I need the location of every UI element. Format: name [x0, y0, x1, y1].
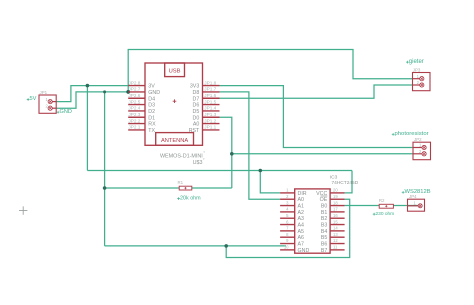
svg-text:A6: A6: [298, 235, 305, 241]
node GND label: [57, 109, 72, 115]
svg-text:GND: GND: [148, 90, 160, 96]
R2 value 230 ohm: [373, 211, 394, 217]
svg-text:JP1.5: JP1.5: [204, 99, 216, 104]
wire GND to JP3 pin 1: [128, 50, 412, 92]
JP3 pin 2: [413, 80, 424, 87]
svg-text:A4: A4: [298, 223, 305, 229]
resistor R1 body: [179, 186, 192, 190]
svg-text:DIR: DIR: [298, 191, 307, 197]
svg-text:TX: TX: [148, 128, 155, 134]
svg-text:WEMOS-D1-MINI: WEMOS-D1-MINI: [160, 154, 203, 160]
svg-text:D5: D5: [193, 109, 200, 115]
svg-text:D1: D1: [148, 115, 155, 121]
svg-text:A1: A1: [298, 204, 305, 210]
svg-text:photoresistor: photoresistor: [395, 131, 429, 137]
svg-text:B0: B0: [321, 204, 328, 210]
svg-text:A0: A0: [193, 122, 200, 128]
svg-text:D7: D7: [193, 96, 200, 102]
JP1 pin 1: [45, 97, 56, 104]
svg-text:JP2.7: JP2.7: [128, 87, 140, 92]
junction GND at module pin: [126, 90, 130, 94]
svg-text:JP1.4: JP1.4: [204, 106, 216, 111]
svg-text:B4: B4: [321, 229, 328, 235]
svg-text:JP2.8: JP2.8: [128, 80, 140, 85]
svg-text:gieter: gieter: [409, 59, 424, 65]
svg-text:JP2: JP2: [414, 137, 422, 142]
wire GND to IC3 OE: [226, 199, 350, 257]
node photoresistor label: [392, 131, 429, 137]
svg-text:A2: A2: [298, 210, 305, 216]
svg-text:13: 13: [333, 232, 338, 237]
svg-text:B6: B6: [321, 242, 328, 248]
svg-text:RX: RX: [148, 122, 156, 128]
svg-text:JP3: JP3: [413, 68, 421, 73]
wire 5V to IC3 DIR: [260, 171, 280, 193]
svg-text:JP1.1: JP1.1: [204, 125, 216, 130]
IC3 left pins 1-10: [280, 188, 309, 254]
junction GND riser: [103, 90, 106, 93]
svg-text:IC3: IC3: [330, 175, 338, 181]
JP4 pin 1: [408, 201, 423, 208]
svg-text:D2: D2: [148, 109, 155, 115]
JP2 pin 2: [413, 149, 426, 156]
junction GND bottom / OE: [224, 244, 228, 248]
svg-text:R2: R2: [379, 198, 385, 203]
svg-text:JP1.6: JP1.6: [204, 93, 216, 98]
svg-text:17: 17: [333, 207, 338, 212]
svg-text:JP2.2: JP2.2: [128, 118, 140, 123]
svg-text:3V3: 3V3: [190, 84, 199, 90]
wire module D8 to IC3 A0: [220, 92, 281, 199]
svg-text:B1: B1: [321, 210, 328, 216]
svg-text:D6: D6: [193, 103, 200, 109]
connector JP2 photoresistor body: [413, 142, 431, 160]
wire JP1.1 to module 3V (5V net): [56, 86, 128, 102]
wire IC3 B0 to R2: [345, 205, 380, 207]
junction D0 / photoresistor: [230, 152, 234, 156]
svg-text:B2: B2: [321, 216, 328, 222]
JP3 pin 1: [413, 74, 424, 81]
module origin cross: [173, 99, 177, 103]
wire GND riser down: [104, 92, 106, 246]
svg-text:RST: RST: [189, 128, 200, 134]
svg-text:JP1: JP1: [40, 90, 48, 95]
svg-text:D8: D8: [193, 90, 200, 96]
wire GND to R1: [105, 187, 180, 189]
svg-text:JP2.5: JP2.5: [128, 99, 140, 104]
svg-text:JP1.7: JP1.7: [204, 87, 216, 92]
svg-text:D4: D4: [148, 96, 155, 102]
JP1 pin 2: [45, 103, 56, 110]
resistor R2 body: [379, 204, 393, 208]
svg-text:D3: D3: [148, 103, 155, 109]
svg-text:20k ohm: 20k ohm: [180, 195, 201, 201]
connector JP4 WS2812B body: [408, 199, 425, 211]
svg-text:WS2812B: WS2812B: [405, 189, 431, 195]
svg-text:A0: A0: [298, 197, 305, 203]
sheet origin cross: [19, 206, 27, 214]
node WS2812B label: [402, 189, 431, 195]
svg-text:JP2.6: JP2.6: [128, 93, 140, 98]
svg-text:JP2.3: JP2.3: [128, 112, 140, 117]
module right pins JP1.1-JP1.8: [189, 80, 220, 134]
svg-text:A7: A7: [298, 242, 305, 248]
svg-text:A5: A5: [298, 229, 305, 235]
svg-text:B7: B7: [321, 248, 328, 254]
module USB notch: [165, 63, 185, 77]
svg-text:JP1.8: JP1.8: [204, 80, 216, 85]
svg-text:B5: B5: [321, 235, 328, 241]
svg-text:JP1.2: JP1.2: [204, 118, 216, 123]
svg-text:OE: OE: [320, 197, 328, 203]
wire module 3V3 to photoresistor pin 1: [220, 86, 414, 148]
module U$3 WEMOS-D1-MINI body: [145, 63, 203, 145]
svg-text:ANTENNA: ANTENNA: [161, 138, 188, 144]
svg-text:B3: B3: [321, 223, 328, 229]
wire 5V rail: [87, 170, 352, 172]
svg-text:16: 16: [333, 213, 338, 218]
wire node D0 to photoresistor pin 2: [232, 153, 413, 155]
svg-text:15: 15: [333, 219, 338, 224]
module left pins JP2.1-JP2.8: [128, 80, 160, 134]
JP2 pin 1: [413, 143, 426, 150]
wire JP1.2 to module GND: [56, 92, 128, 108]
connector JP3 body: [413, 73, 431, 91]
svg-text:GND: GND: [298, 248, 310, 254]
svg-text:20: 20: [333, 188, 338, 193]
svg-text:D0: D0: [193, 115, 200, 121]
wire R1 to D0: [192, 187, 232, 189]
svg-text:10: 10: [284, 245, 289, 250]
svg-text:5V: 5V: [30, 96, 37, 102]
wire GND bottom rail: [105, 245, 286, 247]
IC3 right pins 11-20: [316, 188, 344, 254]
wire module D7 to JP3 pin 2: [220, 85, 413, 98]
wire 5V to IC3 VCC: [345, 171, 352, 193]
IC IC3 74HCT245D body: [295, 189, 330, 253]
svg-text:19: 19: [333, 194, 338, 199]
junction 5V at module 3V: [86, 84, 90, 88]
node 5V label: [27, 96, 37, 102]
svg-text:JP2.4: JP2.4: [128, 106, 140, 111]
connector JP1 body: [39, 95, 56, 113]
svg-text:12: 12: [333, 238, 338, 243]
svg-text:A3: A3: [298, 216, 305, 222]
svg-text:74HCT245D: 74HCT245D: [332, 180, 359, 186]
svg-text:3V: 3V: [148, 84, 155, 90]
wire 5V riser: [86, 86, 88, 171]
node gieter label: [406, 59, 424, 65]
svg-text:230 ohm: 230 ohm: [376, 211, 395, 217]
junction GND / R1: [103, 186, 107, 190]
wire module D0 drop: [220, 117, 232, 188]
IC3 OE overline: [321, 195, 328, 197]
svg-text:14: 14: [333, 226, 338, 231]
svg-text:GND: GND: [60, 109, 72, 115]
svg-text:JP2.1: JP2.1: [128, 125, 140, 130]
svg-text:USB: USB: [169, 69, 181, 75]
junction 5V / DIR: [259, 169, 263, 173]
svg-text:11: 11: [333, 245, 338, 250]
module ANTENNA block: [156, 133, 194, 146]
R1 value 20k ohm: [177, 195, 201, 201]
svg-text:U$3: U$3: [193, 160, 203, 166]
svg-text:JP1.3: JP1.3: [204, 112, 216, 117]
svg-text:18: 18: [333, 200, 338, 205]
svg-text:R1: R1: [178, 180, 184, 185]
wire R2 to JP4 LED pin: [393, 205, 418, 207]
